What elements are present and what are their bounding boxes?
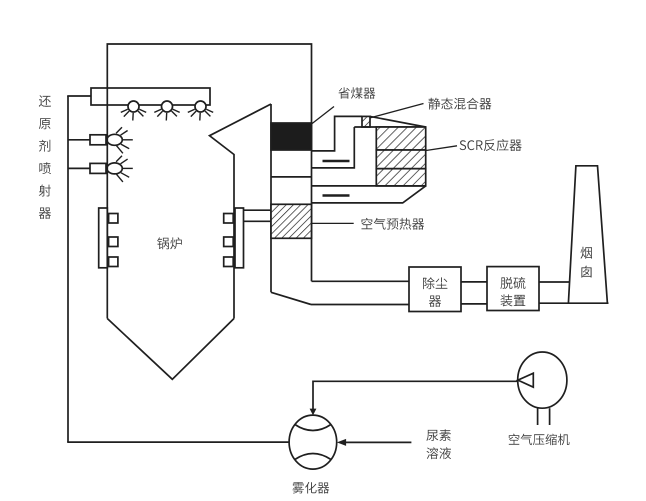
label dust collector line2 (器) xyxy=(429,296,441,307)
boiler left burner panel xyxy=(99,208,108,268)
stack outline (烟囱) xyxy=(568,166,607,303)
label stack (烟囱) xyxy=(581,247,593,278)
atomizer top arc xyxy=(295,425,331,431)
spray nozzle top-3 xyxy=(195,101,206,112)
column divider line xyxy=(271,176,312,178)
label atomizer (雾化器) xyxy=(292,482,329,494)
label economizer (省煤器) xyxy=(338,87,375,99)
leader line economizer xyxy=(312,107,335,125)
atomizer bottom arc xyxy=(295,454,331,460)
column outlet taper xyxy=(271,292,311,304)
wire feed branch to manifold xyxy=(67,95,91,97)
label urea line1 (尿素) xyxy=(426,429,451,441)
duct FGD to stack upper xyxy=(539,281,570,283)
arrowhead urea line xyxy=(337,439,346,446)
flue duct lower wall to dust collector xyxy=(311,304,409,306)
duct dust-collector to FGD upper xyxy=(461,281,487,283)
air line compressor to atomizer xyxy=(313,381,518,409)
SCR top edge xyxy=(354,126,425,128)
spray nozzle top-1 xyxy=(128,101,139,112)
duct dust-collector to FGD lower xyxy=(461,303,487,305)
atomizer circle (雾化器) xyxy=(289,415,337,469)
boiler right burner ports xyxy=(224,214,234,224)
label boiler (锅炉) xyxy=(157,237,182,249)
reagent return line bottom xyxy=(67,441,289,443)
dust collector box (除尘器) xyxy=(409,267,461,312)
air compressor legs xyxy=(537,408,539,425)
leader line SCR xyxy=(426,146,457,151)
label urea line2 (溶液) xyxy=(427,447,452,459)
label FGD line1 (脱硫) xyxy=(500,277,525,289)
leader line static mixer xyxy=(370,104,424,119)
wire reducing-agent feed main vertical xyxy=(67,96,69,442)
leader line air preheater xyxy=(312,222,354,224)
duct FGD to stack lower / stack base xyxy=(539,302,609,304)
boiler right burner panel xyxy=(235,208,244,268)
label dust collector line1 (除尘) xyxy=(423,277,447,289)
flow damper mark lower xyxy=(323,194,350,196)
economizer block (省煤器) xyxy=(271,123,312,150)
injector manifold header xyxy=(91,88,210,105)
label air compressor (空气压缩机) xyxy=(509,434,570,446)
boiler left burner ports xyxy=(109,214,118,224)
label SCR reactor (SCR反应器) xyxy=(460,139,522,151)
return duct bottom wall xyxy=(312,186,426,203)
FGD box (脱硫装置) xyxy=(487,267,539,311)
label reducing-agent-injector (还原剂喷射器) xyxy=(39,95,51,219)
flow damper mark upper xyxy=(323,160,350,162)
duct inner wall to SCR xyxy=(312,127,355,168)
air pipe boiler to preheater xyxy=(244,209,272,211)
boiler outline (锅炉) xyxy=(107,44,311,379)
label static mixer (静态混合器) xyxy=(428,98,491,110)
urea feed line xyxy=(346,441,412,443)
spray nozzle side-1 xyxy=(68,139,90,141)
SCR reactor catalyst layers (SCR反应器) xyxy=(376,127,425,150)
air compressor circle (空气压缩机) xyxy=(518,352,567,408)
boiler flue column left wall xyxy=(270,104,272,292)
flue duct upper wall to dust collector xyxy=(312,280,410,282)
duct outer wall to SCR xyxy=(312,116,363,150)
static mixer (静态混合器) xyxy=(362,116,370,127)
air preheater block (空气预热器) xyxy=(271,204,312,238)
arrowhead air line xyxy=(310,409,317,416)
spray nozzle top-2 xyxy=(162,101,173,112)
SCR bottom edge / return duct top xyxy=(312,185,426,187)
spray nozzle side-2 xyxy=(68,167,90,169)
label FGD line2 (装置) xyxy=(501,294,526,306)
duct top slope to SCR xyxy=(370,116,426,127)
label air preheater (空气预热器) xyxy=(362,218,425,230)
air compressor triangle xyxy=(518,373,533,387)
